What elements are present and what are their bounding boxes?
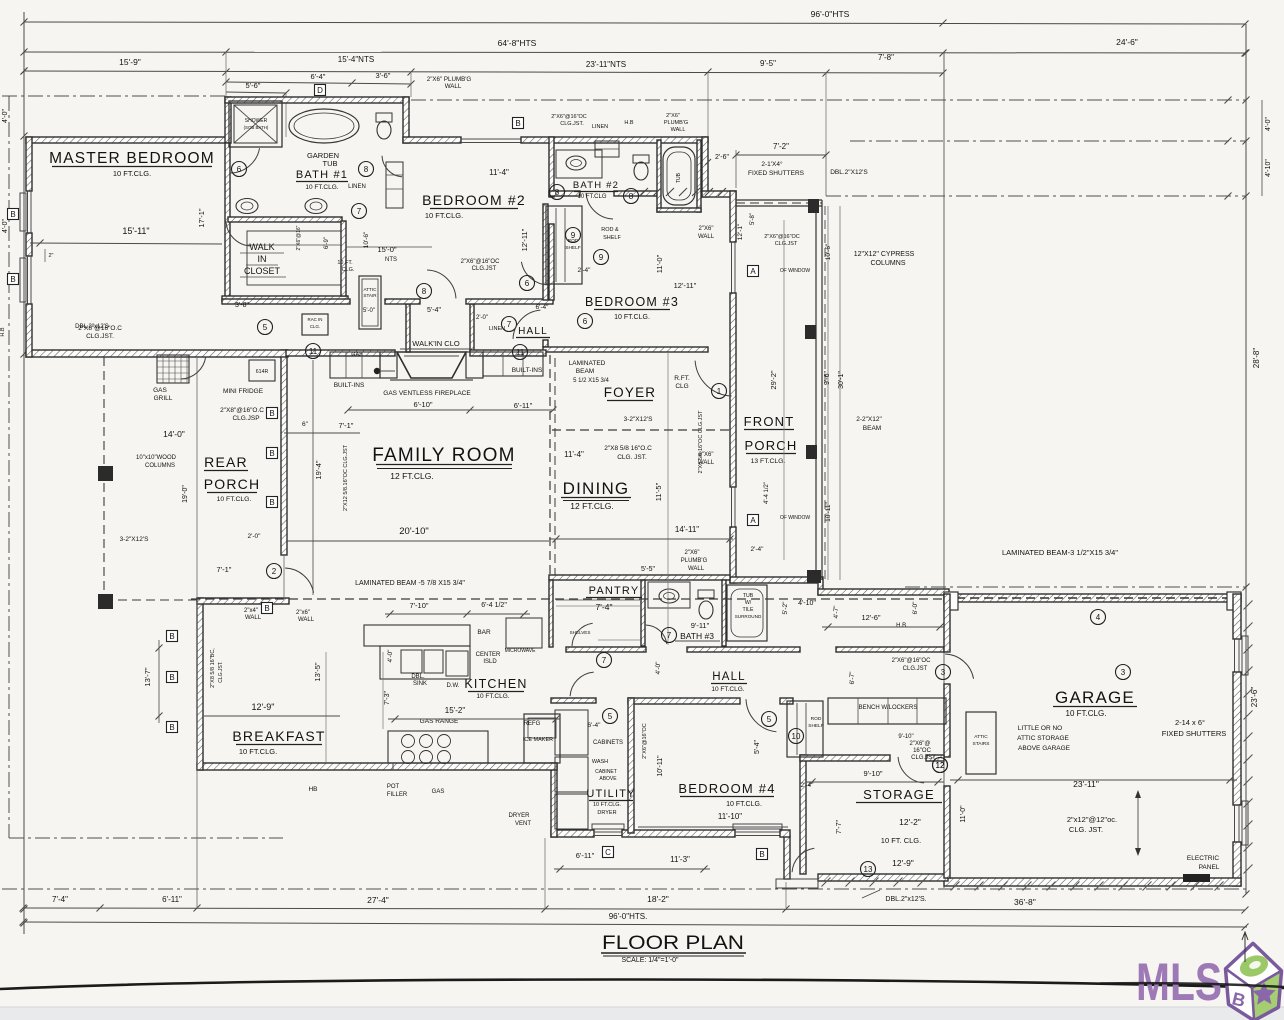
wall kitchen south	[197, 763, 557, 770]
svg-text:7'-2": 7'-2"	[773, 142, 789, 151]
wall garage east b	[1233, 672, 1241, 805]
svg-text:6'-11": 6'-11"	[576, 851, 595, 860]
svg-text:WALK: WALK	[249, 242, 274, 252]
svg-text:12'-6": 12'-6"	[861, 613, 880, 622]
closet shelf lines	[247, 231, 341, 285]
svg-text:UTILITY: UTILITY	[586, 788, 635, 800]
svg-text:BAR: BAR	[477, 629, 491, 636]
svg-text:STAIR: STAIR	[363, 293, 377, 298]
hall circle 7b	[502, 317, 517, 332]
svg-text:7'-4": 7'-4"	[596, 602, 613, 612]
svg-text:D: D	[317, 86, 323, 95]
svg-text:D.W.: D.W.	[447, 683, 460, 689]
tub bath3	[727, 585, 767, 641]
washer dryer	[555, 710, 588, 755]
wall storage south	[818, 874, 948, 881]
svg-text:12'-11": 12'-11"	[674, 281, 697, 290]
extension x786	[785, 882, 787, 908]
door number circle 7	[597, 653, 612, 668]
scanned page bottom border	[0, 980, 1284, 990]
svg-text:10'-6": 10'-6"	[825, 243, 832, 260]
dim 29-2 line	[783, 220, 785, 560]
svg-text:BEDROOM #4: BEDROOM #4	[678, 781, 775, 796]
svg-text:BREAKFAST: BREAKFAST	[232, 728, 325, 744]
svg-text:B: B	[169, 673, 174, 682]
svg-text:4'-10": 4'-10"	[798, 600, 816, 607]
svg-text:HB: HB	[308, 786, 317, 793]
door master	[230, 148, 260, 173]
svg-text:CLG.JST.: CLG.JST.	[86, 333, 114, 340]
svg-text:CENTER: CENTER	[476, 652, 501, 658]
svg-text:7'-4": 7'-4"	[52, 895, 68, 904]
svg-text:TUB: TUB	[323, 159, 338, 168]
svg-text:15'-11": 15'-11"	[122, 226, 149, 236]
wall garage south	[944, 878, 1241, 886]
wall closet east	[341, 221, 346, 296]
svg-text:SHELVES: SHELVES	[570, 630, 591, 635]
svg-text:DBL.2"x12'S.: DBL.2"x12'S.	[885, 896, 926, 903]
dim 7-1 line	[284, 432, 360, 434]
builtins family right	[483, 352, 543, 376]
door garage	[945, 654, 973, 679]
front shutter hatch	[640, 188, 648, 196]
svg-text:COLUMNS: COLUMNS	[870, 260, 905, 267]
svg-text:DBL.2"x12'S: DBL.2"x12'S	[75, 324, 109, 330]
wall breakfast north	[197, 598, 289, 604]
wall bedroom2 south b	[466, 299, 553, 304]
svg-text:10"x10"WOOD: 10"x10"WOOD	[136, 455, 177, 461]
tub bath2	[663, 147, 695, 205]
svg-text:4'-7": 4'-7"	[833, 605, 840, 619]
dim 7-10 line	[385, 613, 530, 615]
svg-text:TILE: TILE	[743, 607, 754, 613]
door number circle 12	[933, 758, 948, 773]
svg-text:19'-0": 19'-0"	[182, 485, 189, 503]
svg-text:7: 7	[507, 320, 512, 329]
svg-text:FOYER: FOYER	[604, 385, 657, 400]
bottom dimension line 1	[23, 908, 1245, 910]
svg-text:96'-0"HTS.: 96'-0"HTS.	[609, 912, 648, 921]
svg-text:11'-4": 11'-4"	[564, 450, 584, 459]
door bedroom2 hall	[521, 262, 550, 285]
svg-text:14'-11": 14'-11"	[675, 525, 699, 534]
door number circle 9	[566, 228, 581, 243]
wall master west a	[26, 137, 32, 191]
window master west b	[27, 256, 29, 304]
door number circle 13	[861, 862, 876, 877]
svg-text:2'-4": 2'-4"	[801, 782, 815, 789]
wall front of bedroom3 a	[730, 191, 736, 242]
svg-text:7'-1": 7'-1"	[217, 565, 232, 574]
svg-text:CLG: CLG	[675, 383, 688, 390]
svg-text:CLG.JST.: CLG.JST.	[911, 755, 937, 761]
window tag B	[267, 497, 278, 508]
svg-text:15'-4"NTS: 15'-4"NTS	[338, 55, 374, 64]
svg-text:WALL: WALL	[245, 615, 262, 621]
dim 15-11 line	[30, 243, 222, 244]
window tag B	[267, 448, 278, 459]
wall garage west c	[944, 786, 950, 878]
wall north bath2	[521, 137, 708, 143]
svg-text:W/: W/	[745, 600, 752, 606]
door number circle 6	[232, 162, 247, 177]
svg-text:GAS: GAS	[351, 352, 363, 358]
door number circle 11	[513, 345, 528, 360]
svg-text:12: 12	[936, 761, 945, 770]
window tag A	[748, 266, 759, 277]
wall bedroom2 east	[549, 137, 554, 197]
builtins family left	[330, 352, 380, 378]
svg-text:2'-0": 2'-0"	[248, 533, 262, 540]
svg-text:12'-9": 12'-9"	[252, 702, 275, 712]
svg-text:2"X6 5/8 16"OC CLG.JST: 2"X6 5/8 16"OC CLG.JST	[698, 410, 704, 474]
window bedroom4 south a	[594, 831, 622, 833]
svg-text:10'-6": 10'-6"	[363, 231, 370, 248]
svg-text:96'-0"HTS: 96'-0"HTS	[811, 9, 850, 19]
wall garage west b	[944, 684, 950, 757]
porch dim lines	[827, 206, 829, 580]
svg-text:BENCH W/LOCKERS: BENCH W/LOCKERS	[859, 705, 918, 711]
wall pantry west	[549, 580, 553, 647]
svg-text:PANEL: PANEL	[1199, 864, 1220, 871]
svg-text:WALL: WALL	[445, 83, 462, 90]
window garage east b	[1234, 805, 1236, 842]
svg-text:LAMINATED BEAM -5 7/8 X15 3/4": LAMINATED BEAM -5 7/8 X15 3/4"	[355, 580, 465, 587]
svg-text:CLG.JSP: CLG.JSP	[232, 415, 259, 422]
svg-text:GARAGE: GARAGE	[1055, 688, 1135, 707]
svg-text:7: 7	[667, 631, 672, 640]
svg-text:PORCH: PORCH	[204, 476, 261, 492]
svg-text:2"X6"@16"OC: 2"X6"@16"OC	[551, 114, 587, 120]
svg-text:5 1/2 X15 3/4: 5 1/2 X15 3/4	[573, 378, 609, 384]
beam family/kitchen	[191, 598, 944, 600]
svg-text:7'-7": 7'-7"	[836, 820, 843, 834]
svg-text:4'-0": 4'-0"	[387, 649, 394, 663]
wall family north b	[470, 350, 546, 356]
door storage ext	[792, 848, 814, 872]
svg-text:11'-3": 11'-3"	[670, 855, 690, 864]
dim 6-10 line	[348, 409, 556, 411]
svg-text:27'-4": 27'-4"	[367, 895, 389, 905]
svg-text:CLG.JST: CLG.JST	[775, 241, 798, 247]
wall front jog	[702, 191, 736, 197]
wall master south	[26, 350, 288, 357]
svg-text:5: 5	[608, 712, 613, 721]
wall front of bath3	[730, 527, 736, 583]
door number circle 9	[594, 250, 609, 265]
wall utility west	[551, 763, 557, 837]
pot filler mark	[392, 763, 394, 770]
svg-text:2"X6"@: 2"X6"@	[909, 741, 930, 747]
wall bedroom2 east b	[549, 224, 554, 300]
svg-text:64'-8"HTS: 64'-8"HTS	[498, 38, 537, 48]
electric panel	[1183, 874, 1210, 882]
wall storage west	[800, 755, 806, 874]
svg-text:PORCH: PORCH	[745, 438, 798, 453]
svg-text:H.B: H.B	[0, 327, 6, 337]
svg-text:CLG.: CLG.	[310, 324, 320, 329]
wall storage stoop jog	[784, 836, 790, 879]
wall master west b	[26, 233, 32, 256]
svg-text:10 FT.CLG.: 10 FT.CLG.	[239, 747, 277, 756]
wall hall south a	[566, 647, 646, 652]
dim 11-10 line	[638, 826, 788, 828]
svg-text:2-14 x 6°: 2-14 x 6°	[1175, 718, 1205, 727]
wall bedroom4 west	[628, 698, 634, 833]
svg-text:4'-0": 4'-0"	[655, 661, 662, 675]
door rear porch	[285, 568, 313, 593]
svg-text:6'-4": 6'-4"	[311, 72, 326, 81]
svg-text:7'-1": 7'-1"	[339, 421, 354, 430]
kitchen island	[380, 646, 470, 679]
door number circle 8	[417, 284, 432, 299]
svg-text:2'-0": 2'-0"	[476, 315, 488, 321]
svg-text:FIXED SHUTTERS: FIXED SHUTTERS	[1162, 729, 1227, 738]
porch column 4	[807, 570, 821, 583]
door bedroom2	[427, 270, 456, 298]
svg-text:9: 9	[599, 253, 604, 262]
svg-text:10 FT.CLG.: 10 FT.CLG.	[425, 211, 463, 220]
svg-text:28'-8": 28'-8"	[1252, 348, 1261, 369]
svg-text:15'-0": 15'-0"	[377, 245, 396, 254]
svg-text:TUB: TUB	[676, 172, 682, 183]
svg-text:10 FT.CLG.: 10 FT.CLG.	[217, 496, 252, 503]
svg-text:2"X6"@16": 2"X6"@16"	[296, 225, 302, 250]
linen bath1	[386, 162, 403, 208]
svg-text:10 FT.CLG.: 10 FT.CLG.	[593, 802, 622, 808]
svg-text:30'-1": 30'-1"	[838, 371, 845, 389]
svg-text:DINING: DINING	[563, 479, 630, 498]
svg-text:WALL: WALL	[698, 234, 715, 240]
wall master north	[26, 137, 230, 143]
svg-text:RAC IN: RAC IN	[308, 317, 323, 322]
wall bedroom4 north a	[628, 698, 740, 704]
svg-text:ABOVE: ABOVE	[599, 776, 617, 782]
wall bedroom4 south c	[780, 830, 790, 837]
wall bedroom4 north b	[780, 698, 793, 704]
garage east hatch	[1244, 601, 1253, 610]
tub bath2 alcove	[657, 140, 661, 212]
svg-text:BEDROOM #3: BEDROOM #3	[585, 295, 679, 309]
svg-text:WALL: WALL	[671, 127, 686, 133]
svg-text:614R: 614R	[256, 369, 269, 375]
svg-text:SCALE: 1/4"=1'-0": SCALE: 1/4"=1'-0"	[621, 957, 679, 964]
svg-text:B: B	[10, 275, 15, 284]
svg-text:12"X12" CYPRESS: 12"X12" CYPRESS	[854, 251, 915, 258]
svg-text:CLG. JST.: CLG. JST.	[1069, 825, 1103, 834]
range counter	[388, 731, 488, 763]
svg-text:23'-11"NTS: 23'-11"NTS	[586, 60, 626, 69]
svg-text:9: 9	[571, 231, 576, 240]
svg-text:LITTLE OR NO: LITTLE OR NO	[1018, 725, 1062, 732]
wall garage east a	[1233, 594, 1241, 639]
svg-text:16"OC: 16"OC	[913, 748, 931, 754]
svg-text:2": 2"	[48, 253, 53, 259]
dim 9-10 line	[806, 781, 944, 783]
svg-text:4'-4 1/2": 4'-4 1/2"	[764, 482, 770, 504]
wall hall north (closet strip)	[222, 299, 350, 304]
window garage east a	[1234, 639, 1236, 672]
door number circle 3	[936, 665, 951, 680]
svg-text:FLOOR PLAN: FLOOR PLAN	[602, 933, 744, 954]
svg-text:PANTRY: PANTRY	[589, 585, 640, 597]
bedroom3 closet	[546, 206, 582, 284]
svg-text:10 FT.CLG.: 10 FT.CLG.	[1066, 709, 1107, 718]
svg-text:10 FT. CLG.: 10 FT. CLG.	[881, 836, 921, 845]
shower bath1	[229, 101, 282, 147]
door front	[695, 361, 732, 396]
extension x226	[225, 52, 227, 97]
rear porch south dashed	[104, 599, 197, 601]
svg-text:ATTIC STORAGE: ATTIC STORAGE	[1017, 735, 1069, 742]
svg-text:DRYER: DRYER	[509, 813, 531, 819]
svg-text:ROD: ROD	[811, 716, 822, 722]
svg-text:BUILT-INS: BUILT-INS	[334, 382, 365, 389]
svg-text:11: 11	[516, 348, 525, 357]
door number circle 8	[550, 185, 565, 200]
door number circle 3	[1116, 665, 1131, 680]
svg-text:STORAGE: STORAGE	[863, 787, 935, 802]
svg-text:9'-10": 9'-10"	[898, 734, 913, 740]
svg-text:2"X8"@16"O.C: 2"X8"@16"O.C	[220, 407, 264, 414]
svg-text:CLG.JST: CLG.JST	[903, 666, 928, 672]
svg-text:7: 7	[602, 656, 607, 665]
svg-text:5'-2": 5'-2"	[782, 601, 789, 615]
svg-text:2: 2	[272, 567, 277, 576]
svg-text:2"x6": 2"x6"	[296, 610, 310, 616]
svg-text:ATTIC: ATTIC	[974, 734, 988, 740]
wall storage north a	[800, 755, 890, 761]
svg-text:SHELF: SHELF	[808, 723, 824, 729]
svg-text:OF WINDOW: OF WINDOW	[780, 515, 811, 521]
door number circle 4	[1091, 610, 1106, 625]
walkin clo wall e	[470, 304, 474, 352]
svg-text:10: 10	[792, 732, 801, 741]
svg-text:MINI FRIDGE: MINI FRIDGE	[223, 388, 264, 395]
microwave nook	[506, 618, 542, 648]
dim 12-9 line	[204, 715, 340, 717]
right margin line	[1245, 24, 1247, 894]
dim 14-11 line	[549, 538, 733, 540]
svg-text:5'-4": 5'-4"	[427, 307, 441, 314]
eave line y196	[826, 195, 1246, 197]
dimension line top 96ft	[24, 22, 1245, 24]
window tag B	[267, 408, 278, 419]
door number circle 5	[762, 712, 777, 727]
svg-text:12'-2": 12'-2"	[899, 817, 921, 827]
svg-text:17'-1": 17'-1"	[197, 208, 206, 227]
window tag C	[603, 847, 614, 858]
extension x826	[825, 73, 827, 150]
rac in clg box	[302, 314, 328, 335]
garage north corner notch e	[1227, 592, 1241, 610]
svg-text:BEAM: BEAM	[863, 425, 881, 432]
right margin inner line	[1261, 100, 1263, 196]
wall utility north	[551, 698, 596, 703]
svg-text:B: B	[759, 850, 764, 859]
garage north corner notch w	[944, 592, 958, 610]
svg-text:3'-8": 3'-8"	[235, 302, 249, 309]
svg-text:6'-11": 6'-11"	[514, 401, 533, 410]
svg-text:HALL: HALL	[712, 671, 746, 683]
wall storage north b	[926, 755, 944, 761]
door bath1 closet	[226, 221, 251, 246]
svg-text:29'-2": 29'-2"	[769, 370, 778, 389]
wall bedroom3 south	[543, 347, 708, 352]
dim 12-6 line	[822, 626, 944, 628]
svg-text:GAS: GAS	[153, 387, 167, 394]
svg-text:BATH #3: BATH #3	[680, 631, 714, 641]
window tag D	[315, 85, 326, 96]
wall east bedroom2 block	[702, 137, 708, 197]
window tag B	[167, 631, 178, 642]
svg-text:10'-11": 10'-11"	[825, 501, 832, 521]
wall bath1 east jog	[403, 97, 409, 143]
eave line rear porch bottom	[9, 837, 283, 839]
svg-text:2-1'X4°: 2-1'X4°	[761, 160, 783, 168]
wc bath1	[377, 121, 391, 139]
svg-text:GRILL: GRILL	[154, 395, 173, 402]
door number circle 1	[712, 384, 727, 399]
wall bedroom3 west b	[543, 340, 548, 347]
svg-text:6: 6	[583, 317, 588, 326]
door number circle 8	[624, 189, 639, 204]
svg-text:23'-11": 23'-11"	[1073, 779, 1099, 789]
svg-text:5'-6": 5'-6"	[246, 81, 261, 90]
fridge	[524, 714, 560, 763]
svg-text:10'-11": 10'-11"	[657, 755, 664, 777]
svg-text:ABOVE GARAGE: ABOVE GARAGE	[1018, 745, 1071, 752]
door bedroom3	[513, 310, 540, 339]
range burners	[402, 735, 415, 748]
svg-text:(SOB BATH): (SOB BATH)	[244, 125, 269, 130]
bottom ui bar	[0, 1007, 1284, 1020]
wc bath3	[699, 601, 713, 619]
door number circle 6	[578, 314, 593, 329]
svg-text:18'-2": 18'-2"	[647, 894, 669, 904]
svg-text:B: B	[269, 498, 274, 507]
window tag B	[167, 722, 178, 733]
svg-text:2"X8 5/8 16"O.C: 2"X8 5/8 16"O.C	[604, 445, 652, 452]
svg-text:6'-7": 6'-7"	[849, 671, 856, 685]
svg-text:2'-6": 2'-6"	[715, 154, 729, 161]
svg-text:4'-0": 4'-0"	[2, 219, 9, 233]
svg-text:2'-4": 2'-4"	[751, 546, 765, 553]
door storage	[898, 757, 924, 783]
extension x286	[285, 93, 287, 137]
bench lockers	[828, 698, 946, 724]
dimension line 64-8 / 24-6	[24, 52, 1245, 53]
svg-text:BEDROOM #2: BEDROOM #2	[422, 192, 526, 208]
svg-text:2"X12 5/8.16"OC CLG.JST: 2"X12 5/8.16"OC CLG.JST	[343, 444, 349, 511]
dimension line 6-4 3-6	[226, 82, 411, 84]
wall bath1 west	[225, 97, 231, 143]
svg-text:11: 11	[309, 347, 318, 356]
svg-text:FIXED SHUTTERS: FIXED SHUTTERS	[748, 170, 805, 177]
svg-text:2-2"X12": 2-2"X12"	[856, 416, 882, 423]
wall porch south / bath3 front	[730, 577, 822, 583]
svg-text:3-2"X12'S: 3-2"X12'S	[624, 416, 654, 423]
wall garage east c	[1233, 842, 1241, 886]
svg-text:2"X6": 2"X6"	[699, 226, 714, 232]
svg-text:11'-0": 11'-0"	[960, 805, 967, 823]
window tag B	[262, 603, 273, 614]
wall bath3 east	[722, 580, 726, 646]
svg-text:ROD &: ROD &	[601, 227, 619, 233]
svg-text:FRONT: FRONT	[744, 414, 795, 429]
wall breakfast west	[197, 598, 203, 770]
right margin arrow	[1244, 934, 1246, 962]
